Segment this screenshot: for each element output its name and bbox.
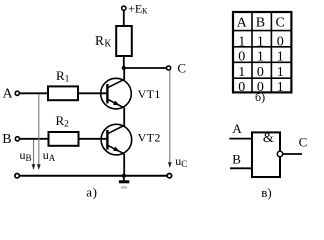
svg-text:1: 1 [277,65,284,80]
svg-text:1: 1 [277,80,284,95]
svg-text:1: 1 [257,49,264,64]
svg-text:B: B [232,152,241,167]
bottom rail [19,175,167,177]
terminal rail right [167,174,171,178]
resistor R2 [49,113,79,146]
svg-text:0: 0 [257,65,264,80]
wire gate input A [229,138,252,140]
svg-text:C: C [299,134,308,149]
svg-text:0: 0 [238,49,245,64]
svg-text:VT1: VT1 [138,87,161,101]
svg-text:C: C [177,61,186,76]
ground [119,176,129,189]
svg-text:0: 0 [238,80,245,95]
svg-text:B: B [256,15,265,30]
svg-text:uС: uС [175,154,187,169]
svg-text:1: 1 [257,34,264,49]
svg-text:0: 0 [277,34,284,49]
svg-text:VT2: VT2 [138,131,161,145]
transistor VT2 [101,124,161,155]
wire node to C terminal [124,67,167,69]
svg-text:1: 1 [238,65,245,80]
svg-text:в): в) [261,185,271,200]
power terminal +EK [122,1,148,15]
wire A to R1 [20,92,49,94]
svg-text:а): а) [86,184,97,199]
wire gate output C [283,153,302,155]
svg-text:C: C [276,15,285,30]
wire R1 to VT1 base [78,92,107,94]
measure arrow uC [168,70,187,169]
svg-text:A: A [3,87,14,102]
node junction bottom [122,174,126,178]
svg-text:1: 1 [277,49,284,64]
measure arrow uA [37,94,56,170]
svg-text:R1: R1 [56,68,70,85]
logic gate U1 (NAND) [252,131,280,177]
resistor R1 [48,68,78,100]
svg-text:б): б) [255,90,265,104]
terminal A [3,87,20,102]
terminal C [167,61,187,76]
svg-text:A: A [237,15,248,30]
terminal B [2,132,19,147]
svg-text:A: A [232,121,242,136]
svg-text:uВ: uВ [20,148,32,163]
wire VT1 emitter to VT2 collector [123,108,125,126]
svg-text:R2: R2 [56,113,70,130]
truth table [233,12,291,95]
wire RK to node [123,56,125,68]
wire VT2 emitter to ground rail [123,154,125,176]
resistor RK [95,26,132,56]
measure arrow uB [20,140,36,170]
wire EK to RK [123,10,125,26]
svg-text:&: & [263,131,274,146]
svg-text:+EК: +EК [128,1,148,15]
node junction top [122,66,126,70]
wire R2 to VT2 base [79,138,108,140]
svg-text:1: 1 [238,34,245,49]
wire gate input B [230,167,252,169]
wire B to R2 [20,138,49,140]
svg-text:RК: RК [95,33,111,50]
transistor VT1 [101,78,161,109]
svg-text:uА: uА [43,148,56,163]
svg-text:B: B [2,132,11,147]
inversion circle [277,151,282,156]
wire node to VT1 collector [123,68,125,80]
terminal rail left [15,174,19,178]
